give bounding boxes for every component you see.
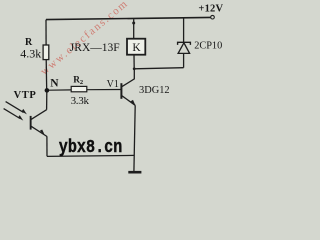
- phototransistor VTP collector diagonal: [31, 110, 47, 120]
- node junction collector/relay: [133, 67, 136, 70]
- transistor V1 base bar: [120, 83, 122, 99]
- wire V1 emitter to ground: [134, 105, 135, 172]
- light arrow 2: [4, 109, 20, 119]
- svg-text:V1: V1: [107, 79, 119, 90]
- wire N to R2: [49, 89, 71, 91]
- transistor V1 collector: [122, 69, 134, 87]
- svg-text:ybx8.cn: ybx8.cn: [59, 138, 123, 158]
- svg-text:+12V: +12V: [198, 3, 223, 14]
- svg-text:3DG12: 3DG12: [139, 85, 170, 96]
- ground: [128, 171, 141, 174]
- wire bottom rail: [47, 155, 135, 156]
- diode 2CP10 triangle: [178, 43, 190, 54]
- wire R to node N: [45, 60, 48, 91]
- wire diode anode to bottom wire: [183, 53, 185, 67]
- svg-text:K: K: [132, 42, 141, 54]
- wire K box to bottom wire: [133, 55, 135, 69]
- wire R2 to V1 base: [87, 89, 121, 91]
- resistor R2: [71, 86, 87, 91]
- wire top rail to relay coil: [133, 19, 135, 39]
- junction dot on relay branch: [132, 22, 135, 25]
- wire relay bottom to diode bottom: [134, 68, 184, 69]
- diode 2CP10 cathode bar: [178, 42, 191, 45]
- wire top rail: [46, 17, 211, 19]
- resistor R: [43, 45, 49, 60]
- wire VTP emitter down: [46, 136, 48, 156]
- relay coil K box: [127, 39, 145, 55]
- svg-text:4.3k: 4.3k: [20, 47, 41, 61]
- svg-text:VTP: VTP: [14, 90, 37, 101]
- transistor V1 emitter with arrow: [122, 96, 135, 106]
- phototransistor VTP emitter with arrow: [31, 126, 47, 136]
- node N junction dot: [45, 88, 50, 93]
- svg-text:2CP10: 2CP10: [194, 41, 222, 52]
- svg-text:N: N: [50, 78, 59, 90]
- phototransistor VTP base bar: [30, 116, 32, 130]
- wire diode cathode to top rail: [183, 18, 185, 43]
- watermark www.elecfans.com: [38, 0, 131, 78]
- svg-text:JRX—13F: JRX—13F: [70, 42, 120, 54]
- wire left rail top: [45, 20, 47, 46]
- light arrow 1: [6, 102, 24, 113]
- svg-text:3.3k: 3.3k: [71, 95, 90, 107]
- wire N to VTP collector: [46, 93, 48, 110]
- terminal +12V: [211, 15, 215, 19]
- paper background: [0, 0, 236, 177]
